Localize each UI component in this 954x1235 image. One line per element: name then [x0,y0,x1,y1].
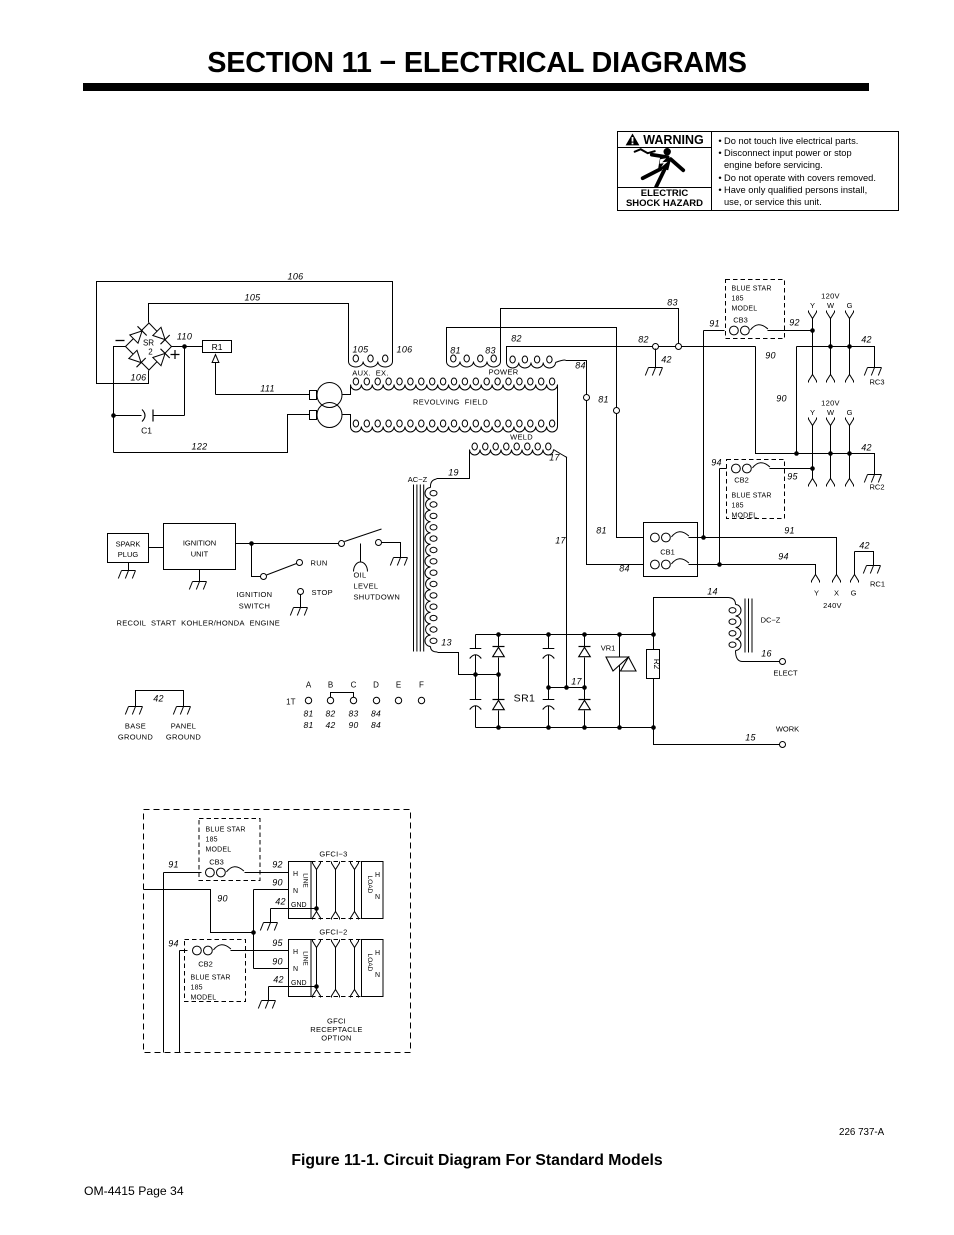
terminal WORK stud [780,742,786,748]
svg-text:94: 94 [711,458,722,468]
wire net 16 (DC-Z to electrode stud) [736,651,780,662]
svg-text:185: 185 [206,837,218,844]
net label 91 (CB3) [709,319,720,329]
GFCI option outer dashed box [144,810,411,1053]
junction dots SR1 mid wires [473,672,587,690]
receptacle RC1 pin Y [812,575,820,583]
junction node 110 [182,344,187,349]
wire net 91 (option) [164,873,202,1053]
net label 90 (GFCI-3) [272,878,283,888]
inductor DC-Z core [745,599,752,653]
wire top slip ring to field [343,385,351,395]
svg-text:83: 83 [348,709,358,719]
svg-text:84: 84 [575,361,586,371]
GFCI receptacle GFCI-2 load box [362,940,384,997]
junction node 91 [701,535,706,540]
svg-text:42: 42 [153,694,164,704]
svg-text:REVOLVING FIELD: REVOLVING FIELD [413,398,488,407]
ground label 42 (RC2) [861,443,872,453]
label WELD [510,433,533,442]
label RECOIL START KOHLER/HONDA ENGINE [117,619,281,628]
svg-text:N: N [293,966,298,973]
junction node GND (GFCI-3) [314,906,319,911]
slip ring (bottom) [317,403,342,428]
svg-text:82: 82 [325,709,335,719]
label SR2 [143,339,154,357]
net label 106 (left) [131,373,147,383]
wire net 91 (CB1 to RC1-X) [689,538,837,575]
svg-text:105: 105 [245,293,262,303]
receptacle RC3 pin W [827,311,835,383]
svg-text:POWER: POWER [489,368,519,377]
label RC3 [870,378,885,387]
label C1 [141,426,152,436]
svg-text:N: N [293,888,298,895]
svg-text:G: G [851,589,857,598]
revolving field coil top row [351,378,558,390]
diode column 1 upper [493,635,505,675]
svg-text:90: 90 [765,351,776,361]
svg-text:MODEL: MODEL [206,847,232,854]
ignition unit box [164,524,236,570]
svg-text:13: 13 [441,638,452,648]
page footer [84,1184,184,1198]
svg-text:42: 42 [859,541,870,551]
label CB2 [734,476,749,485]
svg-text:90: 90 [272,957,283,967]
svg-text:SR: SR [143,339,154,348]
wire net 95 (CB2 to RC2) [770,468,813,470]
spark plug box [108,534,149,563]
capacitor column 2 lower [543,688,555,728]
svg-text:RC3: RC3 [870,378,885,387]
wire net 94 (CB1 to RC1-Y) [689,565,816,575]
net label 17 (top) [549,453,560,463]
SR1 mid-left wire [459,674,499,676]
svg-text:111: 111 [260,384,275,394]
receptacle RC2 pin Y [809,418,817,487]
svg-text:42: 42 [861,335,872,345]
wire net 82 (coil to CB3 area) [507,347,756,363]
capacitor C1 [114,410,185,422]
svg-text:VR1: VR1 [601,644,616,653]
svg-text:BLUE STAR: BLUE STAR [191,975,231,982]
svg-text:R1: R1 [212,342,223,352]
junction dots RC3 [828,344,852,349]
oil level sensor dome [354,544,368,572]
receptacle RC1 pin G [851,552,859,583]
svg-text:SR1: SR1 [514,693,536,705]
svg-text:B: B [328,681,333,690]
svg-text:H: H [375,872,380,879]
svg-text:GFCI−3: GFCI−3 [319,850,347,859]
svg-text:92: 92 [789,318,800,328]
label GFCI-3 [319,850,347,859]
svg-text:42: 42 [325,720,335,730]
svg-text:81: 81 [596,526,607,536]
svg-text:105: 105 [353,345,370,355]
ground RC2 [864,468,881,483]
svg-text:90: 90 [272,878,283,888]
drawing number [839,1127,884,1138]
ignition switch STOP contact [298,589,304,595]
wire net 83 (coil to plug) [501,309,679,362]
net label 81 (CB1) [596,526,607,536]
wire net 90 (RC3 row) [797,347,875,361]
svg-text:A: A [306,681,312,690]
junction node GND (GFCI-2) [314,984,319,989]
wire net 110 (SR2 + to R1) [172,346,203,348]
receptacle RC3 pin G [846,311,854,383]
svg-text:185: 185 [732,503,744,510]
circuit breaker CB3 [730,325,768,335]
svg-text:42: 42 [661,355,672,365]
figure caption [0,1152,954,1170]
net label 106 (at AUX.EX) [397,345,413,355]
GFCI GFCI-3 contact 1 [313,862,321,920]
wire net 90 (RC3 to RC2) [796,347,798,454]
svg-text:DC−Z: DC−Z [761,616,781,625]
label WORK [776,725,799,734]
label REVOLVING FIELD [413,398,488,407]
diode SR2 top-right [153,327,170,344]
wire net 90 (GFCI-3 N) [254,889,289,891]
resistor R1 [203,341,232,353]
svg-text:240V: 240V [823,601,842,610]
svg-text:90: 90 [776,394,787,404]
svg-text:MODEL: MODEL [732,513,758,520]
label CB2 (option) [198,960,213,969]
ground label 42 (RC3) [861,335,872,345]
svg-text:Y: Y [810,301,815,310]
svg-text:84: 84 [371,720,381,730]
svg-text:WORK: WORK [776,725,799,734]
svg-text:106: 106 [397,345,413,355]
svg-text:W: W [827,408,835,417]
wire net 105 (bridge top to AUX.EX left lead) [149,304,349,362]
ground label 42 (GFCI-3) [275,897,286,907]
slip ring (top) [317,383,342,408]
svg-text:42: 42 [273,975,284,985]
net label 105 (at AUX.EX) [353,345,370,355]
svg-text:122: 122 [192,442,208,452]
svg-text:BASE: BASE [125,722,146,731]
labels Y X G (RC1) [814,589,857,598]
ground RC1 [863,559,880,574]
receptacle RC2 pin G [846,418,854,487]
svg-text:RC1: RC1 [870,580,885,589]
resistor R2 [647,635,661,728]
svg-text:BLUE STAR: BLUE STAR [732,493,772,500]
wire net 94 (down to CB1) [719,469,721,565]
label DC-Z [761,616,781,625]
label GFCI RECEPTACLE OPTION [310,1017,362,1043]
wire net 94 (CB2 left) [720,468,727,470]
svg-text:IGNITION: IGNITION [183,539,216,548]
net label 90 (GFCI-2) [272,957,283,967]
net label 94 (CB2) [711,458,722,468]
diode SR2 bottom-left [129,350,146,367]
label VR1 [601,644,616,653]
svg-text:PLUG: PLUG [118,550,139,559]
svg-text:IGNITION: IGNITION [237,590,273,599]
wire spark plug to ignition unit [149,547,164,549]
junction node at C1 left [111,413,116,418]
rectifier SR2 diamond [126,323,172,370]
svg-text:LOAD: LOAD [366,876,373,894]
base ground [125,707,142,715]
svg-text:92: 92 [272,860,283,870]
capacitor column 1 lower [470,675,482,728]
GFCI GFCI-3 contact 2 [332,862,340,920]
GFCI receptacle GFCI-2 dashed edges [311,940,362,997]
svg-text:81: 81 [450,346,461,356]
wire net 122 (to bottom slip ring) [114,415,310,453]
svg-text:UNIT: UNIT [191,550,209,559]
label CB1 [660,548,675,557]
svg-text:19: 19 [448,468,459,478]
wire net 17 (weld to SR1) [554,450,568,688]
label PANEL GROUND [166,722,201,742]
svg-text:106: 106 [288,272,304,282]
junction node 94 [717,562,722,567]
label RC1 [870,580,885,589]
svg-text:G: G [847,408,853,417]
svg-text:91: 91 [784,526,795,536]
wire net 90 (GFCI-2 N) [254,968,289,970]
svg-text:84: 84 [371,709,381,719]
wire net 106 (bridge bottom to AUX.EX right lead) [97,282,393,384]
label CB3 (option) [209,858,224,867]
svg-text:185: 185 [732,296,744,303]
net label 105 (top) [245,293,262,303]
GFCI GFCI-2 contact 1 [313,940,321,998]
svg-text:AC−Z: AC−Z [408,475,428,484]
circuit breaker CB1 pole 2 [651,559,689,569]
coil 82-84 (power winding) [507,356,566,368]
wire C1 to node 110 [184,347,186,416]
net label 19 [448,468,459,478]
svg-text:E: E [396,681,401,690]
terminal strip 1T terminals [305,697,424,703]
svg-text:CB2: CB2 [198,960,213,969]
svg-text:42: 42 [861,443,872,453]
label 120V (RC3) [821,292,840,301]
svg-text:90: 90 [217,894,228,904]
svg-text:LINE: LINE [302,873,309,888]
junction node 92 on RC3-Y [810,328,815,333]
coil 81-83 (power winding) [447,355,501,367]
svg-text:2: 2 [148,348,153,357]
svg-text:LOAD: LOAD [366,954,373,972]
svg-text:RC2: RC2 [870,483,885,492]
wire oil switch to ground [382,543,401,550]
svg-text:84: 84 [619,564,630,574]
net label 95 (option) [272,938,283,948]
svg-text:15: 15 [745,733,756,743]
svg-text:MODEL: MODEL [191,995,217,1002]
wire from SR2 minus (left vertical) [114,347,126,453]
ground label 42 (RC1) [859,541,870,551]
CB2 option dashed box (BLUE STAR 185 MODEL) [185,940,246,1002]
ground (spark plug) [118,563,135,579]
svg-text:17: 17 [549,453,560,463]
svg-text:81: 81 [303,720,313,730]
warning box [617,131,899,211]
net label 110 [177,332,192,342]
ground (ignition unit) [189,570,206,590]
wire net 90 (RC2 row) [797,454,875,468]
electric shock hazard person icon [635,148,684,187]
brush (bottom slip ring) [310,411,317,420]
svg-text:CB2: CB2 [734,476,749,485]
ground label 42 (GFCI-2) [273,975,284,985]
diode column 2 upper [579,635,591,688]
wire net 42 (GFCI-2 GND) [269,987,317,996]
GFCI GFCI-3 contact 3 [351,862,359,920]
svg-text:G: G [847,301,853,310]
svg-text:94: 94 [778,552,789,562]
ignition switch RUN contact [297,560,303,566]
svg-text:R2: R2 [652,659,661,670]
svg-text:17: 17 [555,536,566,546]
svg-text:120V: 120V [821,399,840,408]
junction node 90 [794,451,799,456]
label CB3 [733,316,748,325]
junction node 90 (option) [251,930,256,935]
GFCI GFCI-2 contact 3 [351,940,359,998]
svg-text:83: 83 [485,346,496,356]
GFCI receptacle GFCI-2 line box [289,940,312,997]
svg-text:Y: Y [814,589,819,598]
svg-text:CB3: CB3 [209,858,224,867]
wire net 92 (option) [245,872,289,874]
svg-text:91: 91 [168,860,179,870]
GFCI receptacle GFCI-3 load box [362,862,384,919]
net label 16 [761,649,772,659]
junction dots RC2 [828,451,852,456]
revolving field right side [557,385,559,427]
svg-text:GROUND: GROUND [118,733,153,742]
wire net 111 (R1 wiper to top slip ring) [216,394,310,396]
svg-text:STOP: STOP [312,588,333,597]
wire net 81 (coil to CB1) [447,328,644,538]
labels Y W G (RC2) [810,408,853,417]
wire net 15 (rail to work stud) [654,728,780,745]
svg-text:BLUE STAR: BLUE STAR [732,286,772,293]
svg-text:F: F [419,681,424,690]
wire net 90 (option main) [144,890,254,969]
connector plug 82b [676,344,682,350]
svg-text:GROUND: GROUND [166,733,201,742]
label SR1 [514,693,536,705]
net label 90 (option) [217,894,228,904]
wire net 94 (option) [180,951,188,1053]
svg-text:110: 110 [177,332,192,342]
diode column 1 lower [493,675,505,728]
label STOP [312,588,333,597]
ground RC3 [864,361,881,376]
net label 82 (coil) [511,334,522,344]
svg-text:95: 95 [272,938,283,948]
varistor VR1 symbol [606,657,636,671]
wire net 84 (coil to CB1) [566,361,644,565]
svg-text:CB3: CB3 [733,316,748,325]
net label 106 (top) [288,272,304,282]
svg-text:14: 14 [707,587,718,597]
net label 94 (RC1) [778,552,789,562]
coil AUX. EX. [349,355,393,367]
wire net 14 (rail to DC-Z) [654,598,736,635]
CB3 option dashed box (BLUE STAR 185 MODEL) [199,819,260,881]
svg-text:RECOIL START KOHLER/HONDA E: RECOIL START KOHLER/HONDA ENGINE [117,619,281,628]
net label 14 [707,587,718,597]
svg-text:185: 185 [191,985,203,992]
label RUN [311,559,328,568]
net label 92 (option) [272,860,283,870]
connector plug 84 [584,395,590,401]
svg-text:91: 91 [709,319,720,329]
wire net 13 (AC-Z to SR1) [431,647,470,675]
svg-text:OIL: OIL [354,571,367,580]
SR1 mid-right wire [549,687,585,689]
label BASE GROUND [118,722,153,742]
net label 92 (CB3) [789,318,800,328]
capacitor column 1 upper [470,635,482,675]
wire bottom slip ring to field [343,415,351,427]
svg-text:CB1: CB1 [660,548,675,557]
svg-text:GND: GND [291,902,307,909]
svg-text:N: N [375,894,380,901]
svg-text:LEVEL: LEVEL [354,582,379,591]
circuit breaker CB1 pole 1 [651,532,689,542]
minus sign of SR2 [116,340,125,342]
svg-text:N: N [375,972,380,979]
ground (STOP) [290,595,307,616]
svg-text:GND: GND [291,980,307,987]
junction node ignition [249,541,254,546]
svg-text:95: 95 [787,472,798,482]
oil level switch arm [345,529,382,542]
svg-text:PANEL: PANEL [171,722,197,731]
svg-text:H: H [375,950,380,957]
circuit breaker CB2 [732,463,770,473]
ground at plug 82 [645,349,662,376]
connector plug 81 [614,408,620,414]
svg-text:SHUTDOWN: SHUTDOWN [354,593,401,602]
label 1T [286,698,295,707]
net label 94 (option) [168,939,179,949]
terminal labels row 2 [303,720,381,730]
junction dots SR1 bottom rail [496,725,656,730]
wire to ignition switch [252,544,261,577]
coil WELD [470,443,554,455]
brush (top slip ring) [310,391,317,400]
net label 90 (middle) [776,394,787,404]
title underline bar [83,83,869,91]
ignition switch arm [267,564,297,576]
junction node 95 on RC2-Y [810,466,815,471]
svg-text:90: 90 [348,720,358,730]
CB3 dashed box (BLUE STAR 185 MODEL) [726,280,785,339]
ground (GFCI-2) [258,996,275,1009]
svg-text:H: H [293,871,298,878]
label AUX. EX. [352,369,388,378]
terminal labels row 1 [303,709,381,719]
circuit breaker CB1 box [644,523,698,577]
connector plug 82a [653,344,659,350]
label OIL LEVEL SHUTDOWN [354,571,401,602]
